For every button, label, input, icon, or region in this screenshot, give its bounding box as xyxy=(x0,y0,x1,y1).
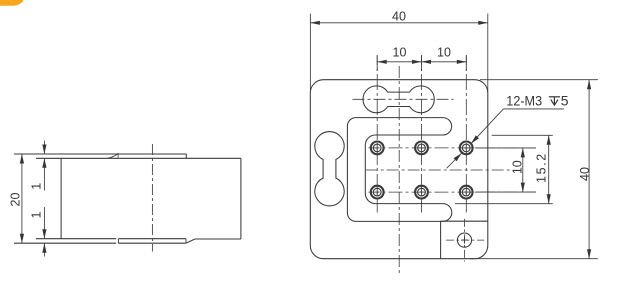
svg-text:12-M3: 12-M3 xyxy=(506,93,542,109)
svg-text:1: 1 xyxy=(30,183,44,190)
dim line 10 left span xyxy=(377,61,421,63)
column centerline middle xyxy=(421,55,423,213)
body left edge xyxy=(60,158,62,238)
plate vertical centerline xyxy=(398,66,400,274)
bottom plate top line (right of break) xyxy=(118,238,186,240)
column centerline left xyxy=(376,55,378,213)
hole r2c1 xyxy=(371,186,384,199)
bottom plate bottom line (right of break) xyxy=(118,242,185,244)
ext 15.2 bottom xyxy=(455,203,553,205)
ext line top40 left xyxy=(309,14,311,93)
right 40 dim xyxy=(588,80,590,259)
hole r1c3 xyxy=(460,142,473,155)
left bone slot xyxy=(315,132,344,206)
dim 1 top lower arrow xyxy=(43,158,45,190)
joggle diagonal xyxy=(108,154,118,158)
svg-text:40: 40 xyxy=(578,167,592,181)
hole r1c2 xyxy=(415,142,428,155)
dim 1 bottom lower arrow xyxy=(43,243,45,256)
bottom-right box top edge xyxy=(441,220,488,222)
svg-text:15.2: 15.2 xyxy=(534,152,548,183)
bottom plate top line (left of break) xyxy=(36,238,116,240)
hole r1c1 xyxy=(371,142,384,155)
body bottom edge xyxy=(195,238,241,240)
svg-text:40: 40 xyxy=(392,9,406,23)
right 10 dim xyxy=(522,148,524,192)
ext line top40 right xyxy=(487,14,489,93)
centerlines xyxy=(353,55,536,274)
leader underline xyxy=(503,108,564,110)
row centerline bottom xyxy=(369,191,536,193)
right 15.2 dim xyxy=(548,135,550,203)
top surface line + extension xyxy=(14,153,186,155)
ext right40 top xyxy=(480,79,598,81)
ext 10/10 stubs xyxy=(376,56,378,72)
row centerline top xyxy=(369,147,536,149)
column centerline right xyxy=(465,55,467,213)
ext 15.2 top xyxy=(492,134,553,136)
bottom break tick xyxy=(117,239,119,243)
plate outline xyxy=(310,80,488,259)
hole r2c2 xyxy=(415,186,428,199)
bottom-right box left edge xyxy=(440,221,442,259)
svg-text:5: 5 xyxy=(561,93,569,109)
leader segment A xyxy=(471,109,504,144)
bone slot horizontal centerline xyxy=(353,98,454,100)
plate horizontal centerline xyxy=(366,169,512,171)
dim 20 line xyxy=(21,154,23,243)
ext right10 top xyxy=(476,147,536,149)
left view centerline xyxy=(151,144,153,252)
orange corner badge xyxy=(0,0,24,6)
leader segment B xyxy=(447,153,462,168)
dim 1 bottom upper arrow xyxy=(43,207,45,239)
bottom plate bottom line (left of break) + extension xyxy=(14,242,116,244)
depth symbol xyxy=(549,97,560,105)
svg-text:10: 10 xyxy=(393,46,407,60)
ext right10 bottom xyxy=(476,191,536,193)
small corner hole xyxy=(457,233,471,247)
top bone slot xyxy=(363,86,434,113)
step at right end of top plate xyxy=(185,154,187,158)
svg-text:20: 20 xyxy=(8,193,22,207)
M3 holes grid xyxy=(371,142,473,199)
bottom right ramp diagonal xyxy=(186,239,195,243)
body right edge xyxy=(240,158,242,239)
small hole vertical centerline xyxy=(464,219,466,262)
hole r2c3 xyxy=(460,186,473,199)
svg-text:1: 1 xyxy=(30,211,44,218)
svg-text:10: 10 xyxy=(511,160,525,174)
bottom plate right end cap xyxy=(185,239,187,244)
dim line 40 top xyxy=(310,22,487,24)
small hole horizontal centerline xyxy=(446,239,484,241)
top plate bottom / body top line + extension xyxy=(36,157,241,159)
joggle tick xyxy=(117,153,119,158)
dim 1 top upper arrow xyxy=(43,141,45,155)
svg-text:10: 10 xyxy=(437,46,451,60)
dim line 10 right span xyxy=(422,61,467,63)
ext right40 bottom xyxy=(470,258,598,260)
pocket C-contour xyxy=(347,118,451,222)
